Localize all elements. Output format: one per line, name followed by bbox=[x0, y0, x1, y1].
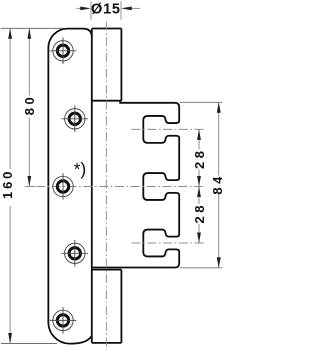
svg-text:Ø15: Ø15 bbox=[91, 2, 121, 18]
wire: dimension 28+28 line bbox=[198, 129, 200, 243]
wire: top extension line at plate top bbox=[1, 27, 63, 29]
wire: right extension lines for 84 bbox=[180, 101, 222, 103]
svg-text:160: 160 bbox=[0, 169, 15, 199]
node: frame part comb outline with 3 knuckles bbox=[92, 101, 179, 268]
wire: dimension 84 line bbox=[218, 102, 220, 267]
wire: vertical dash-dot centerline of barrel strip bbox=[105, 22, 107, 350]
wire: horizontal dash-dot centerline gap3 bbox=[132, 242, 207, 244]
node: hinge leaf plate outline bbox=[48, 29, 91, 344]
wire: horizontal dash-dot centerline gap2 through middle hole bbox=[36, 186, 206, 188]
node: screw hole 4 bbox=[62, 240, 89, 267]
wire: dimension D15 arrows and ticks bbox=[77, 7, 141, 9]
node: screw hole 2 bbox=[62, 106, 89, 133]
node: screw hole 3 (middle) bbox=[53, 173, 73, 200]
wire: bottom extension line at plate bottom bbox=[1, 343, 57, 345]
svg-text:80: 80 bbox=[22, 94, 37, 115]
wire: dimension 160 line bbox=[9, 28, 11, 343]
svg-text:28: 28 bbox=[192, 148, 207, 169]
svg-text:*): *) bbox=[74, 159, 87, 179]
node: screw hole 1 bbox=[50, 38, 77, 65]
node: screw hole 5 bbox=[50, 307, 77, 334]
wire: dimension 80 line bbox=[25, 28, 35, 186]
wire: horizontal dash-dot centerline gap1 bbox=[132, 128, 207, 130]
node: barrel strip outline bbox=[92, 29, 122, 343]
svg-text:28: 28 bbox=[192, 202, 207, 223]
svg-text:84: 84 bbox=[210, 173, 225, 194]
